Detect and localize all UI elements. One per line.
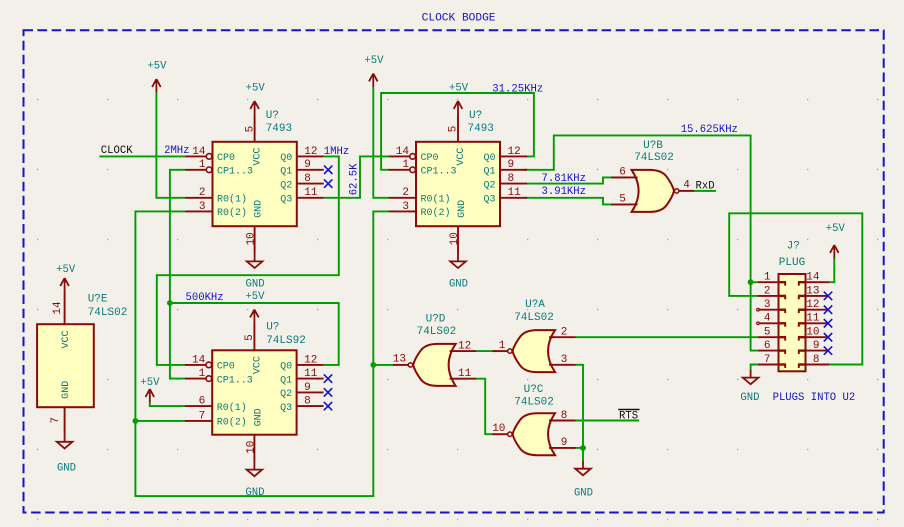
svg-text:+5V: +5V <box>449 83 469 95</box>
svg-text:74LS02: 74LS02 <box>514 312 554 324</box>
wire 1MHz net U1 Q0 to U3 pin 14 <box>157 156 339 365</box>
+5V power symbol at U2 R0(1) <box>369 74 378 88</box>
U3 pin 7 R0(2) <box>185 420 212 422</box>
U3 pin 1 CP1..3 <box>185 378 206 380</box>
svg-text:2: 2 <box>561 327 568 339</box>
J? pin 7 <box>758 364 779 366</box>
svg-text:7.81KHz: 7.81KHz <box>542 173 587 185</box>
NOR gate U?C 74LS02 <box>513 413 555 455</box>
wire reset net to U3 pin 7 <box>135 420 185 422</box>
IC U? 7493 second counter <box>416 142 500 226</box>
svg-text:1: 1 <box>499 340 506 352</box>
wire reset net U1.R0(2)/U3.R0(2)/U2.R0(2) <box>135 211 389 496</box>
svg-text:74LS02: 74LS02 <box>514 397 554 409</box>
svg-text:1: 1 <box>199 368 206 380</box>
NOR gate U?C 74LS02 output bubble pin 10 <box>508 432 512 436</box>
wire U4A output to U4D pin 12 <box>475 350 496 352</box>
svg-text:8: 8 <box>508 173 515 185</box>
junction ground at U4C pin 9 <box>580 445 586 451</box>
svg-text:Q0: Q0 <box>483 153 495 164</box>
wire +5V to U2 pin 2 <box>373 87 389 198</box>
svg-text:1: 1 <box>764 272 771 284</box>
J? pin 13 <box>806 295 830 297</box>
NOR gate U?C 74LS02 input pin 8 <box>549 420 576 422</box>
svg-text:U?C: U?C <box>524 384 544 396</box>
svg-text:VCC: VCC <box>61 330 72 348</box>
svg-text:3: 3 <box>402 201 409 213</box>
svg-text:5: 5 <box>619 194 626 206</box>
NOR gate U?B 74LS02 input pin 6 <box>611 176 638 178</box>
svg-text:10: 10 <box>449 232 461 245</box>
svg-text:Q3: Q3 <box>483 195 495 206</box>
wire RTS net from U4C pin 8 <box>572 420 639 422</box>
svg-text:CP1..3: CP1..3 <box>421 167 457 178</box>
junction 500KHz net <box>167 300 173 306</box>
U2 pin 10 GND <box>457 226 459 253</box>
svg-text:11: 11 <box>304 187 318 199</box>
svg-text:4: 4 <box>764 313 771 325</box>
svg-text:Q0: Q0 <box>280 153 292 164</box>
U3 pin 9 Q2 <box>297 391 324 393</box>
+5V power symbol at J? pin 14 <box>830 245 839 259</box>
svg-text:GND: GND <box>245 487 264 499</box>
U1 pin 14 CP0 <box>185 155 206 157</box>
svg-text:5: 5 <box>764 327 771 339</box>
svg-text:2MHz: 2MHz <box>164 145 189 157</box>
svg-text:GND: GND <box>254 200 265 218</box>
J? pin 3 <box>760 309 779 311</box>
U3 pin 6 R0(1) <box>185 405 212 407</box>
svg-text:CP1..3: CP1..3 <box>217 167 253 178</box>
U1 pin 10 GND <box>254 226 256 253</box>
svg-text:7: 7 <box>199 410 206 422</box>
+5V power symbol at U3 pin 5 <box>250 310 259 324</box>
svg-text:9: 9 <box>561 437 568 449</box>
svg-text:Q1: Q1 <box>483 167 495 178</box>
svg-text:J?: J? <box>787 241 800 253</box>
NOR gate U?C 74LS02 input pin 9 <box>549 447 576 449</box>
U2 pin 8 Q2 <box>500 183 527 185</box>
U1 pin 11 Q3 <box>297 197 324 199</box>
svg-text:CLOCK: CLOCK <box>101 145 133 157</box>
U3 pin 14 CP0 <box>185 364 206 366</box>
no-connect J? pin 9 <box>824 346 832 354</box>
svg-text:R0(1): R0(1) <box>217 194 247 206</box>
wire 31.25KHz net U2 Q0 to U2 pin 1 <box>381 93 534 170</box>
svg-text:11: 11 <box>458 368 472 380</box>
J? pin 14 <box>806 281 830 283</box>
svg-text:+5V: +5V <box>364 55 384 67</box>
svg-text:12: 12 <box>458 340 471 352</box>
NOR gate U?A 74LS02 <box>513 330 555 372</box>
svg-text:3: 3 <box>199 201 206 213</box>
no-connect U3 Q2 <box>324 388 332 396</box>
svg-text:GND: GND <box>574 488 593 500</box>
svg-text:14: 14 <box>806 272 820 284</box>
svg-text:9: 9 <box>508 159 515 171</box>
svg-text:11: 11 <box>806 313 820 325</box>
U1 pin 3 R0(2) <box>185 210 212 212</box>
no-connect J? pin 10 <box>824 333 832 341</box>
U1 pin 12 Q0 <box>297 155 324 157</box>
ground symbol below U1 <box>247 253 263 268</box>
svg-text:Q3: Q3 <box>280 195 292 206</box>
U2 pin 11 Q3 <box>500 197 527 199</box>
wire 500KHz net from U3 Q0 <box>170 303 339 365</box>
IC U?E 74LS02 power unit <box>37 324 94 407</box>
wire 15.625KHz net U2 Q1 to J plug pin 6 <box>524 135 758 350</box>
svg-text:7493: 7493 <box>468 123 494 135</box>
U3 pin 11 Q1 <box>297 378 324 380</box>
svg-text:U?: U? <box>266 110 279 122</box>
svg-text:1: 1 <box>402 159 409 171</box>
svg-text:10: 10 <box>245 441 257 454</box>
J? pin 5 <box>758 336 779 338</box>
svg-text:5: 5 <box>244 126 256 133</box>
svg-text:8: 8 <box>304 396 311 408</box>
wire 500KHz net U1 pin1 to U3 pin1 <box>170 170 186 379</box>
U?E pin 7 GND <box>64 407 66 434</box>
J? pin 10 <box>806 336 830 338</box>
svg-text:31.25KHz: 31.25KHz <box>492 83 543 95</box>
svg-text:74LS02: 74LS02 <box>88 307 128 319</box>
wire U4C pin 9 to ground <box>572 447 583 449</box>
svg-text:VCC: VCC <box>456 148 467 166</box>
svg-text:8: 8 <box>813 354 820 366</box>
svg-text:CP1..3: CP1..3 <box>217 375 253 386</box>
+5V power symbol at U?E pin 14 <box>60 278 69 292</box>
svg-text:9: 9 <box>304 382 311 394</box>
svg-text:62.5K: 62.5K <box>348 163 360 195</box>
svg-text:CP0: CP0 <box>217 153 235 164</box>
U2 pin 3 R0(2) <box>389 210 416 212</box>
svg-text:PLUG: PLUG <box>779 257 805 269</box>
NOR gate U?D 74LS02 input pin 12 <box>450 350 477 352</box>
wire CLOCK net to U1 pin 14 <box>99 155 185 157</box>
svg-text:+5V: +5V <box>140 377 160 389</box>
wire J plug pin 2 to pin 8 loop <box>729 213 862 364</box>
svg-text:GND: GND <box>61 381 72 399</box>
svg-text:15.625KHz: 15.625KHz <box>681 124 738 136</box>
svg-text:12: 12 <box>806 299 819 311</box>
svg-text:Q2: Q2 <box>280 180 292 191</box>
svg-text:10: 10 <box>492 423 505 435</box>
svg-text:GND: GND <box>57 463 76 475</box>
svg-text:RTS: RTS <box>619 410 638 422</box>
svg-text:6: 6 <box>619 167 626 179</box>
svg-text:GND: GND <box>449 279 468 291</box>
svg-text:2: 2 <box>764 285 771 297</box>
U3 pin 5 VCC <box>253 323 255 350</box>
svg-text:+5V: +5V <box>246 83 266 95</box>
svg-text:11: 11 <box>508 187 522 199</box>
svg-text:R0(2): R0(2) <box>217 207 247 219</box>
IC U? 74LS92 counter <box>212 350 296 434</box>
svg-text:74LS02: 74LS02 <box>634 152 674 164</box>
U2 pin 1 CP1..3 <box>389 169 410 171</box>
J? pin 1 <box>758 281 779 283</box>
J? pin 6 <box>758 350 779 352</box>
+5V power symbol at U1 pin 5 <box>250 101 259 115</box>
svg-text:1: 1 <box>199 159 206 171</box>
+5V power symbol near CLOCK <box>152 79 161 93</box>
NOR gate U?D 74LS02 output bubble pin 13 <box>408 363 412 367</box>
ground symbol below U3 <box>247 462 263 477</box>
svg-text:GND: GND <box>246 279 265 291</box>
svg-text:8: 8 <box>561 410 568 422</box>
svg-text:2: 2 <box>199 187 206 199</box>
svg-text:Q0: Q0 <box>280 362 292 373</box>
svg-text:VCC: VCC <box>253 148 264 166</box>
U3 pin 8 Q3 <box>297 405 324 407</box>
wire U4A pin 2 to J plug pin 5 <box>575 336 758 338</box>
wire 15.625KHz net to J plug pin 1 <box>751 281 758 283</box>
svg-text:74LS92: 74LS92 <box>266 335 306 347</box>
svg-text:13: 13 <box>806 285 819 297</box>
U1 pin 2 R0(1) <box>185 197 212 199</box>
NOR gate U?A 74LS02 output bubble pin 1 <box>508 349 512 353</box>
U1 pin 9 Q1 <box>297 169 324 171</box>
svg-text:3: 3 <box>764 299 771 311</box>
NOR gate U?A 74LS02 input pin 3 <box>549 364 576 366</box>
no-connect U1 Q2 <box>324 179 332 187</box>
J? pin 9 <box>806 350 830 352</box>
svg-text:5: 5 <box>448 126 460 133</box>
no-connect U3 Q3 <box>324 402 332 410</box>
J? pin 8 <box>806 364 830 366</box>
U2 pin 2 R0(1) <box>389 197 416 199</box>
NOR gate U?B 74LS02 input pin 5 <box>611 203 638 205</box>
svg-text:9: 9 <box>304 159 311 171</box>
svg-text:4: 4 <box>683 180 690 192</box>
wire 62.5K net U1 Q3 to U2 pin 14 <box>324 156 389 197</box>
svg-text:7: 7 <box>764 354 771 366</box>
NOR gate U?D 74LS02 input pin 11 <box>450 378 477 380</box>
svg-text:14: 14 <box>396 146 410 158</box>
U1 pin 1 CP1..3 <box>185 169 206 171</box>
svg-text:VCC: VCC <box>252 356 263 374</box>
svg-text:11: 11 <box>304 368 318 380</box>
svg-text:CP0: CP0 <box>421 153 439 164</box>
wire 7.81KHz net U2 Q2 to U4B pin 6 <box>525 177 628 183</box>
junction reset net at U4D output <box>370 362 376 368</box>
svg-text:3: 3 <box>561 354 568 366</box>
svg-text:8: 8 <box>304 173 311 185</box>
NOR gate U?B 74LS02 output bubble pin 4 <box>675 189 679 193</box>
no-connect J? pin 12 <box>824 306 832 314</box>
wire U4D output to reset net <box>373 364 394 366</box>
svg-text:GND: GND <box>740 392 759 404</box>
NOR gate U?A 74LS02 input pin 2 <box>549 336 576 338</box>
U?E pin 14 VCC <box>64 292 66 325</box>
U3 pin 10 GND <box>253 435 255 462</box>
svg-text:6: 6 <box>764 340 771 352</box>
ground symbol below J? pin 7 <box>743 370 759 385</box>
U1 pin 5 VCC <box>254 115 256 142</box>
no-connect U3 Q1 <box>324 374 332 382</box>
ground symbol below U?E <box>57 434 73 449</box>
U3 pin 12 Q0 <box>297 364 324 366</box>
J? pin 4 <box>760 322 779 324</box>
NOR gate U?D 74LS02 <box>413 344 455 386</box>
connector J? PLUG <box>779 274 806 371</box>
svg-text:3.91KHz: 3.91KHz <box>542 186 587 198</box>
svg-text:Q2: Q2 <box>483 180 495 191</box>
svg-text:R0(1): R0(1) <box>217 402 247 414</box>
svg-text:U?D: U?D <box>426 313 446 325</box>
svg-text:+5V: +5V <box>56 264 76 276</box>
svg-text:R0(2): R0(2) <box>421 207 451 219</box>
svg-text:U?A: U?A <box>525 299 545 311</box>
svg-text:U?: U? <box>469 110 482 122</box>
svg-text:Q3: Q3 <box>280 403 292 414</box>
no-connect J? pin 13 <box>824 292 832 300</box>
U2 pin 5 VCC <box>457 115 459 142</box>
IC U? 7493 first counter <box>213 142 297 226</box>
svg-text:7: 7 <box>50 417 62 424</box>
svg-text:74LS02: 74LS02 <box>417 326 457 338</box>
ground symbol below U2 <box>450 253 466 268</box>
svg-text:U?B: U?B <box>643 140 663 152</box>
ground symbol below U4C pin 9 <box>575 461 591 476</box>
svg-text:+5V: +5V <box>245 291 265 303</box>
svg-text:R0(2): R0(2) <box>217 417 247 429</box>
svg-text:Q2: Q2 <box>280 389 292 400</box>
svg-text:13: 13 <box>393 354 406 366</box>
wire 3.91KHz net U2 Q3 to U4B pin 5 <box>525 198 628 205</box>
wire U4D pin 11 to U4C output <box>475 379 495 435</box>
svg-text:+5V: +5V <box>147 61 167 73</box>
svg-text:R0(1): R0(1) <box>421 194 451 206</box>
svg-text:RxD: RxD <box>696 180 715 192</box>
U2 pin 14 CP0 <box>389 155 410 157</box>
svg-text:14: 14 <box>192 146 206 158</box>
junction reset net at U3 pin 7 <box>133 418 139 424</box>
J? pin 2 <box>758 295 779 297</box>
svg-text:10: 10 <box>246 232 258 245</box>
svg-text:500KHz: 500KHz <box>186 292 224 304</box>
svg-text:5: 5 <box>244 334 256 341</box>
svg-text:12: 12 <box>304 354 317 366</box>
wire J plug pin 7 to ground <box>751 365 758 370</box>
J? pin 11 <box>806 322 830 324</box>
+5V power symbol at U3 R0(1) <box>146 389 155 403</box>
svg-text:14: 14 <box>52 301 64 315</box>
svg-text:PLUGS INTO U2: PLUGS INTO U2 <box>773 392 856 404</box>
U2 pin 12 Q0 <box>500 155 527 157</box>
wire RxD net from U4B output <box>694 190 716 192</box>
svg-text:12: 12 <box>508 146 521 158</box>
wire U4A pin 3 to ground <box>575 365 583 461</box>
svg-text:GND: GND <box>253 408 264 426</box>
svg-text:CP0: CP0 <box>217 362 235 373</box>
no-connect J? pin 11 <box>824 319 832 327</box>
wire J plug pin 14 to +5V <box>829 259 834 283</box>
svg-text:9: 9 <box>813 340 820 352</box>
svg-text:Q1: Q1 <box>280 167 292 178</box>
svg-text:CLOCK BODGE: CLOCK BODGE <box>422 12 496 24</box>
svg-text:2: 2 <box>402 187 409 199</box>
svg-text:14: 14 <box>192 354 206 366</box>
NOR gate U?B 74LS02 <box>632 170 674 212</box>
wire +5V to U3 pin 6 <box>150 403 185 407</box>
U2 pin 9 Q1 <box>500 169 527 171</box>
svg-text:7493: 7493 <box>266 123 292 135</box>
svg-text:GND: GND <box>457 200 468 218</box>
svg-text:6: 6 <box>199 396 206 408</box>
no-connect U1 Q1 <box>324 166 332 174</box>
svg-text:Q1: Q1 <box>280 375 292 386</box>
svg-text:+5V: +5V <box>826 223 846 235</box>
svg-text:1MHz: 1MHz <box>324 146 349 158</box>
svg-text:U?E: U?E <box>88 294 108 306</box>
+5V power symbol at U2 pin 5 <box>454 101 463 115</box>
junction 15.625KHz at plug pin 1 <box>748 279 754 285</box>
svg-text:U?: U? <box>266 322 279 334</box>
J? pin 12 <box>806 309 830 311</box>
svg-text:10: 10 <box>806 327 819 339</box>
svg-text:12: 12 <box>304 146 317 158</box>
wire +5V rail to U1 pin 2 <box>156 93 185 198</box>
U1 pin 8 Q2 <box>297 183 324 185</box>
